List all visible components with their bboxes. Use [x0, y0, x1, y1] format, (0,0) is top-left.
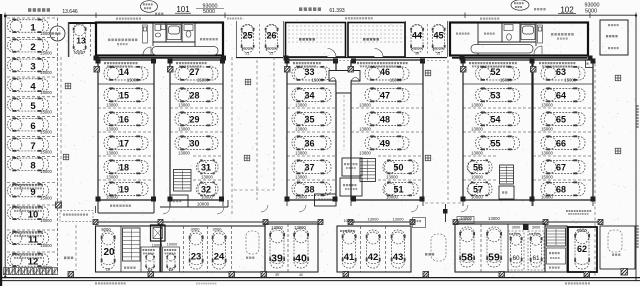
svg-text:18: 18	[119, 162, 129, 172]
svg-text:13000: 13000	[295, 195, 307, 200]
south wall under apartment 102	[452, 57, 587, 59]
parking stall 49 car	[365, 136, 409, 150]
boundary corner points	[4, 15, 7, 18]
door arcs bank D bottom	[411, 205, 418, 212]
svg-text:13000: 13000	[106, 127, 118, 132]
parking stall 60 machine stall	[508, 231, 524, 270]
parking stall 20 car	[101, 231, 115, 269]
parking stall 58 car	[460, 227, 475, 267]
svg-text:10000: 10000	[167, 243, 178, 247]
svg-text:40: 40	[299, 273, 303, 277]
svg-text:65: 65	[556, 114, 566, 124]
parking stall 29 car	[175, 112, 218, 126]
stall 24 divider	[207, 226, 209, 272]
bank D top wall	[351, 59, 423, 61]
bottom small text right	[565, 282, 567, 284]
parking stall 19 car	[104, 182, 148, 196]
svg-text:2: 2	[30, 42, 35, 53]
svg-text:13000: 13000	[265, 46, 277, 51]
svg-text:15000: 15000	[564, 78, 576, 83]
svg-text:13000: 13000	[178, 151, 190, 156]
svg-text:15000: 15000	[541, 127, 553, 132]
parking stall 30 car	[175, 136, 218, 150]
svg-text:63: 63	[556, 67, 566, 77]
dashed guide line bc lane east	[256, 60, 258, 200]
lane 1 label	[64, 257, 66, 260]
bicycle room entry openings	[328, 54, 337, 59]
parking stall 48 car	[365, 112, 409, 126]
svg-text:13000: 13000	[359, 127, 371, 132]
apartment 101 bedroom label	[200, 38, 202, 40]
bank C row divider	[287, 131, 336, 133]
door swing bank C bottom	[261, 205, 268, 212]
bank F row divider	[463, 155, 497, 157]
bicycle room left walls	[286, 23, 346, 58]
stall 41 label	[340, 230, 342, 232]
svg-text:13000: 13000	[295, 151, 307, 156]
parking symbol circle	[50, 26, 65, 41]
bank C row divider	[287, 179, 336, 181]
svg-text:6: 6	[30, 121, 35, 132]
wall stubs	[95, 206, 97, 213]
svg-text:3: 3	[30, 62, 35, 73]
parking stall 5 car	[8, 98, 49, 112]
parking stall 65 car	[541, 112, 585, 126]
parking stall 11 label text	[12, 232, 14, 234]
type circle right	[511, 0, 529, 10]
garbage storage box	[600, 20, 628, 55]
svg-text:13000: 13000	[295, 175, 307, 180]
south wall under apartment 101	[96, 57, 223, 59]
grid marker	[244, 155, 250, 161]
parking stall 7 car	[8, 138, 49, 152]
svg-text:4: 4	[30, 81, 36, 92]
svg-text:13000: 13000	[201, 175, 213, 180]
svg-text:30: 30	[189, 138, 199, 148]
svg-text:15000: 15000	[40, 51, 52, 56]
bank B row divider	[170, 107, 223, 109]
parking stall 12 car	[8, 253, 49, 267]
stall 58-61 block outline	[455, 224, 545, 272]
svg-text:35: 35	[304, 114, 314, 124]
svg-text:68: 68	[556, 184, 566, 194]
svg-text:13000: 13000	[386, 175, 398, 180]
bank G row divider	[533, 131, 593, 133]
svg-text:17: 17	[119, 138, 129, 148]
storage below stairs	[547, 248, 566, 264]
grid marker	[245, 79, 251, 85]
stall 25/26 area boundary	[236, 21, 238, 57]
left scan edge bar	[0, 14, 2, 286]
boundary label 61.393	[299, 7, 302, 11]
svg-text:10000: 10000	[541, 195, 553, 200]
row-1 wall pillars	[94, 67, 100, 73]
small note right	[534, 8, 536, 10]
bank B top wall	[170, 59, 223, 61]
bank C storage room	[315, 194, 337, 206]
pillars on road line	[68, 272, 74, 278]
turnaround dashed area	[246, 231, 259, 254]
svg-text:23: 23	[191, 252, 202, 263]
grid marker	[65, 83, 71, 89]
fire pump room	[340, 178, 362, 196]
wall stub near stall 58 block	[445, 204, 447, 222]
south wall under bicycle rooms	[287, 57, 447, 59]
stall 59 divider	[480, 224, 482, 272]
machine parking note	[566, 210, 568, 212]
svg-text:59: 59	[488, 252, 500, 264]
svg-text:13000: 13000	[541, 103, 553, 108]
bank D row divider	[351, 131, 423, 133]
lower band wall pillars	[93, 220, 98, 225]
bottom small text mid	[196, 283, 198, 285]
bank D left wall	[350, 60, 352, 200]
svg-text:22: 22	[270, 52, 274, 56]
svg-text:15000: 15000	[197, 78, 209, 83]
lane 2 label	[246, 257, 248, 259]
bank C row divider	[287, 83, 336, 85]
parking stall 3 car	[8, 58, 49, 72]
bank G right wall	[592, 60, 594, 200]
svg-text:13000: 13000	[359, 151, 371, 156]
small note left	[155, 13, 157, 15]
apartment 102 bath tub	[521, 25, 535, 40]
parking stall 28 car	[175, 88, 218, 102]
svg-text:14: 14	[119, 67, 129, 77]
bank B row divider	[170, 83, 223, 85]
svg-text:3000: 3000	[213, 227, 223, 232]
svg-text:26: 26	[106, 268, 110, 272]
svg-text:13000: 13000	[106, 151, 118, 156]
parking stall 32 car	[196, 182, 218, 196]
apartment 101 utility fixtures	[155, 25, 166, 38]
svg-text:47: 47	[380, 90, 390, 100]
bicycle room left label	[299, 38, 301, 41]
svg-text:58: 58	[461, 252, 473, 264]
svg-text:64: 64	[556, 90, 566, 100]
bank A bottom wall	[98, 199, 154, 201]
parking stall 41 car	[342, 230, 356, 268]
parking stall 18 car	[104, 160, 148, 174]
svg-text:13000: 13000	[410, 46, 422, 51]
parking stall 26 car	[265, 25, 278, 53]
svg-text:3000: 3000	[532, 226, 540, 230]
parking stall 45 car	[432, 25, 445, 53]
svg-text:13000: 13000	[271, 225, 283, 230]
parking stall 36 car	[292, 136, 331, 150]
parking stall 31 car	[196, 160, 218, 174]
svg-text:13000: 13000	[471, 151, 483, 156]
svg-text:15000: 15000	[500, 78, 512, 83]
parking stall 40 car	[294, 228, 309, 268]
south wall under stalls 25/26	[236, 57, 283, 59]
sign box right of stall 43	[413, 218, 426, 228]
parking stall 2 car	[8, 39, 49, 53]
top strip note a	[116, 18, 118, 20]
bank D right wall	[422, 60, 424, 200]
apartment 101 entrance door	[143, 47, 151, 55]
bank G top wall	[533, 59, 593, 61]
bicycle room dot hatch	[288, 25, 401, 42]
lower band top wall	[95, 221, 160, 223]
svg-text:15000: 15000	[40, 218, 52, 223]
svg-text:37: 37	[304, 162, 314, 172]
svg-text:101: 101	[176, 5, 190, 14]
svg-text:44: 44	[412, 31, 422, 41]
parking stall 46 car	[365, 66, 409, 80]
svg-text:10000: 10000	[343, 218, 355, 223]
lane 1 dashed center line	[75, 225, 77, 270]
dashed guide line df lane east	[447, 60, 449, 200]
dashed guide line b lane	[231, 57, 233, 215]
bank F left wall	[462, 60, 464, 200]
parking stall 4 car	[8, 78, 49, 92]
svg-text:41: 41	[344, 252, 355, 263]
svg-text:51: 51	[393, 184, 403, 194]
bank F right wall	[531, 60, 533, 200]
svg-text:15000: 15000	[40, 70, 52, 75]
svg-text:13000: 13000	[541, 151, 553, 156]
bank A right wall	[153, 60, 155, 200]
svg-text:5000: 5000	[577, 228, 587, 233]
bank B bottom wall	[170, 199, 223, 201]
top site boundary line	[4, 14, 636, 16]
svg-text:13: 13	[76, 36, 86, 46]
svg-text:31: 31	[437, 52, 441, 56]
door arcs bank F bottom	[461, 205, 468, 212]
parking stall 61 machine stall	[528, 231, 544, 270]
bank G row divider	[533, 179, 593, 181]
svg-text:46: 46	[380, 67, 390, 77]
apartment 101 LDK label	[108, 39, 110, 42]
svg-text:45: 45	[433, 31, 443, 41]
parking stall 63 car	[541, 66, 585, 80]
bank G row divider	[533, 155, 593, 157]
svg-text:10000: 10000	[471, 175, 483, 180]
bicycle room right label	[363, 38, 365, 41]
dashed guide line center lane	[273, 57, 275, 190]
ramp tower structure between banks C and D	[329, 71, 360, 94]
parking stall 37 car	[292, 160, 331, 174]
bank A row divider	[98, 155, 154, 157]
svg-text:38: 38	[304, 184, 314, 194]
right boundary vertical label	[637, 105, 639, 107]
parking stall 35 car	[292, 112, 331, 126]
parking stall 52 car	[476, 66, 520, 80]
parking stall 24 car	[212, 231, 226, 269]
left parking column right edge	[57, 18, 59, 271]
bank F row divider	[463, 131, 532, 133]
bank C bottom wall	[287, 199, 336, 201]
bank A top wall	[98, 59, 154, 61]
svg-text:15000: 15000	[40, 90, 52, 95]
svg-text:10000: 10000	[471, 195, 483, 200]
svg-text:40: 40	[295, 253, 307, 265]
parking stall 33 machine label	[293, 62, 295, 64]
parking stall 63 machine label	[539, 62, 541, 64]
fire equipment box	[342, 158, 362, 176]
parking stall 27 car	[175, 66, 218, 80]
svg-text:5000: 5000	[101, 227, 111, 232]
bank A storage room label	[110, 205, 112, 207]
stall 60/61 machine stalls	[507, 224, 509, 272]
bottom-right stair block	[545, 226, 567, 272]
parking stall 57 car	[467, 182, 492, 196]
apartment 102 bedroom1 label	[456, 33, 458, 35]
apartment 102 balcony edge	[452, 58, 587, 60]
left parking column divider lines	[7, 17, 58, 19]
lane 3 area	[600, 226, 635, 269]
bank F row divider	[463, 107, 532, 109]
bottom road boundary line	[0, 277, 640, 279]
apartment 102 interior partitions	[478, 23, 536, 56]
svg-text:7: 7	[30, 141, 35, 152]
parking stall 38 car	[292, 182, 331, 196]
svg-text:10000: 10000	[73, 50, 85, 55]
machine stall left of wall	[141, 247, 160, 272]
svg-text:55: 55	[490, 138, 500, 148]
svg-text:43: 43	[393, 252, 404, 263]
bank D staircase	[360, 159, 376, 182]
parking stall 25 car	[241, 25, 254, 53]
parking stall 17 car	[104, 136, 148, 150]
parking stall 1 car	[8, 19, 49, 33]
svg-text:13.646: 13.646	[62, 9, 78, 15]
lane 2 turnaround dashes	[431, 234, 446, 261]
svg-text:13000: 13000	[471, 127, 483, 132]
bank F row divider	[463, 83, 532, 85]
apartment 101 balcony edge	[98, 58, 223, 60]
svg-text:15000: 15000	[40, 110, 52, 115]
svg-text:54: 54	[490, 114, 500, 124]
boundary tick marks	[4, 13, 6, 19]
apartment 102 LDK label	[551, 33, 553, 36]
svg-text:62: 62	[577, 244, 587, 254]
svg-text:53: 53	[490, 90, 500, 100]
svg-text:15000: 15000	[40, 169, 52, 174]
left site boundary line	[4, 15, 6, 277]
parking stall 62 car	[575, 229, 590, 269]
svg-text:48: 48	[380, 114, 390, 124]
parking stall 68 car	[541, 182, 585, 196]
parking stall 16 car	[104, 112, 148, 126]
parking stall 13 right boundary	[90, 24, 92, 56]
svg-text:19: 19	[119, 184, 129, 194]
stall 43 divider	[385, 226, 387, 272]
svg-text:1: 1	[30, 22, 36, 33]
apartment 102 porch strip	[471, 45, 533, 54]
apartment 101 bath tub	[167, 25, 181, 40]
apartment 102 outer walls	[450, 23, 588, 56]
bank A bottom wall extension	[98, 212, 154, 214]
bank D row divider	[378, 179, 423, 181]
bank B bottom extension wall	[160, 206, 228, 208]
svg-text:39: 39	[271, 253, 283, 265]
stall 22 machine stall	[163, 247, 180, 272]
apartment 101 toilet	[184, 25, 193, 38]
bank B row divider	[193, 179, 223, 181]
svg-text:13000: 13000	[295, 127, 307, 132]
bank A row divider	[98, 179, 154, 181]
stall 39/40 block outline	[265, 224, 318, 272]
parking stall 50 car	[383, 160, 418, 174]
stall 13 bay left wall	[68, 22, 70, 57]
svg-text:31: 31	[201, 162, 211, 172]
svg-text:13000: 13000	[106, 103, 118, 108]
parking stall 15 car	[104, 88, 148, 102]
parking stall 14 car	[104, 66, 148, 80]
grid marker	[63, 154, 69, 160]
stall 21-24 block outline	[161, 226, 265, 272]
bottom small text left	[95, 282, 97, 284]
stall 23 divider	[183, 226, 185, 272]
top strip note d	[227, 18, 229, 20]
grid marker	[615, 75, 621, 81]
parking stall 34 car	[292, 88, 331, 102]
svg-text:13000: 13000	[294, 225, 306, 230]
lane 2 center label	[425, 253, 427, 256]
svg-text:52: 52	[490, 67, 500, 77]
svg-text:16: 16	[119, 114, 129, 124]
svg-text:20: 20	[103, 247, 115, 258]
svg-text:10000: 10000	[106, 195, 118, 200]
svg-text:10000: 10000	[197, 202, 210, 207]
svg-text:15: 15	[119, 90, 129, 100]
bottom-left block outline	[96, 226, 161, 272]
apartment 102 toilet	[504, 25, 513, 41]
svg-text:57: 57	[473, 184, 483, 194]
svg-text:13000: 13000	[106, 175, 118, 180]
bank A row divider	[98, 107, 154, 109]
svg-text:39: 39	[275, 273, 279, 277]
bank B left wall	[169, 60, 171, 200]
svg-text:8: 8	[30, 161, 35, 172]
parking stall 13 car	[73, 24, 86, 54]
grid marker	[425, 155, 431, 161]
bank D row divider	[378, 155, 423, 157]
top strip note c	[480, 18, 482, 20]
svg-text:13000: 13000	[241, 46, 253, 51]
parking stall 66 car	[541, 136, 585, 150]
svg-text:22: 22	[169, 267, 174, 272]
svg-text:13000: 13000	[178, 127, 190, 132]
parking stall 46 machine label	[357, 62, 359, 64]
bank F bottom wall	[463, 199, 532, 201]
bank G row divider	[533, 83, 593, 85]
svg-text:13000: 13000	[359, 103, 371, 108]
svg-text:36: 36	[304, 138, 314, 148]
svg-text:34: 34	[304, 90, 314, 100]
bicycle room right walls	[348, 23, 405, 58]
bank F row divider	[463, 179, 497, 181]
apartment 101 interior partitions	[153, 23, 195, 56]
grid marker	[425, 70, 431, 76]
lane 1 ramp label box	[60, 211, 93, 222]
svg-text:28: 28	[189, 90, 199, 100]
svg-text:13000: 13000	[488, 216, 500, 221]
bank D row divider	[351, 83, 423, 85]
svg-text:30: 30	[415, 52, 419, 56]
lane 1 hatched pillar	[56, 202, 62, 208]
parking stall 9 car	[8, 184, 49, 198]
apartment 101 porch strip	[152, 47, 218, 56]
parking stall 42 car	[366, 230, 380, 268]
svg-text:24: 24	[214, 252, 225, 263]
svg-text:33: 33	[304, 67, 314, 77]
svg-text:15000: 15000	[127, 78, 139, 83]
parking stall 8 car	[8, 157, 49, 171]
svg-text:13000: 13000	[295, 103, 307, 108]
